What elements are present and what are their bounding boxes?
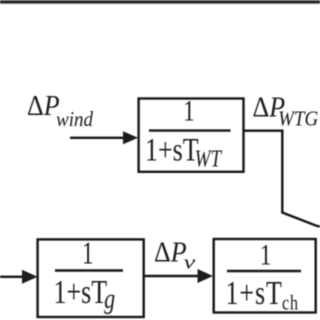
svg-text:1: 1 xyxy=(260,238,271,272)
svg-text:1+sTg: 1+sTg xyxy=(54,273,116,315)
svg-text:ΔPWTG: ΔPWTG xyxy=(253,91,319,130)
svg-text:ΔPwind: ΔPwind xyxy=(27,90,94,131)
svg-text:1+sTWT: 1+sTWT xyxy=(145,133,223,172)
svg-text:1+sTch: 1+sTch xyxy=(226,274,299,315)
svg-text:v: v xyxy=(184,252,197,273)
svg-text:ΔP: ΔP xyxy=(154,236,187,267)
svg-text:1: 1 xyxy=(82,235,94,270)
svg-text:1: 1 xyxy=(183,95,194,127)
